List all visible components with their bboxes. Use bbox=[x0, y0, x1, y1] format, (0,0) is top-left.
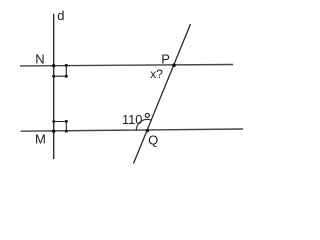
dot P intersection bbox=[172, 63, 176, 67]
top parallel line through N and P bbox=[20, 65, 233, 66]
svg-text:110: 110 bbox=[122, 112, 142, 127]
line d (vertical) bbox=[53, 14, 55, 159]
dot N square bottom-left bbox=[52, 75, 55, 78]
svg-text:x?: x? bbox=[150, 67, 163, 81]
right-angle square at N bbox=[54, 66, 67, 77]
dot N intersection bbox=[52, 64, 55, 67]
dot M square bottom-right bbox=[65, 130, 68, 133]
dot N square bottom-right bbox=[65, 75, 68, 78]
angle arc at Q bbox=[136, 119, 151, 130]
dot M square top-left bbox=[52, 120, 55, 123]
svg-text:d: d bbox=[57, 8, 64, 23]
transversal line through P and Q bbox=[134, 24, 191, 164]
bottom parallel line through M and Q bbox=[21, 129, 244, 131]
right-angle square at M bbox=[54, 122, 67, 132]
svg-text:M: M bbox=[35, 132, 46, 147]
dot N square top-right bbox=[65, 64, 68, 67]
svg-text:N: N bbox=[35, 51, 44, 66]
svg-text:Q: Q bbox=[148, 132, 158, 147]
dot M square top-right bbox=[65, 120, 68, 123]
dot M intersection bbox=[52, 130, 55, 133]
svg-text:P: P bbox=[161, 51, 170, 66]
degree symbol of 110 bbox=[145, 113, 149, 117]
dot Q intersection bbox=[146, 129, 149, 132]
